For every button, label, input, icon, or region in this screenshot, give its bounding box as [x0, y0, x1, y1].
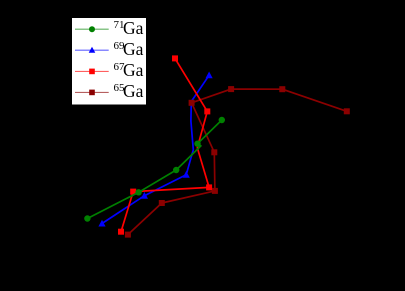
67Ga marker s5: [204, 108, 210, 114]
legend entry 65Ga marker: [89, 90, 95, 96]
67Ga marker s2: [130, 189, 136, 195]
71Ga marker c4: [194, 141, 200, 147]
71Ga marker c2: [135, 189, 141, 195]
legend entry 69Ga marker: [89, 47, 96, 53]
69Ga marker t6: [206, 72, 213, 79]
67Ga marker s1: [118, 229, 124, 235]
svg-text:Ga: Ga: [123, 18, 144, 38]
series 67Ga (red) line: [121, 58, 209, 231]
69Ga marker t1: [98, 220, 105, 227]
legend entry 67Ga marker: [89, 69, 95, 75]
65Ga marker d3: [212, 188, 218, 194]
71Ga marker c5: [219, 117, 225, 123]
65Ga marker d4: [211, 149, 217, 155]
legend entry 67Ga line: [75, 70, 109, 72]
67Ga marker s3: [206, 184, 212, 190]
legend box: [72, 18, 147, 106]
svg-text:Ga: Ga: [123, 81, 144, 101]
svg-text:Ga: Ga: [123, 60, 144, 80]
71Ga marker c3: [173, 167, 179, 173]
65Ga marker d8: [344, 108, 350, 114]
series 65Ga (dark red) line: [128, 89, 347, 235]
series 71Ga (green) line: [87, 120, 221, 219]
65Ga marker d5: [189, 100, 195, 106]
65Ga marker d7: [279, 86, 285, 92]
series 69Ga (blue) line: [102, 75, 209, 223]
legend entry 71Ga line: [75, 28, 109, 30]
legend entry 65Ga line: [75, 91, 109, 93]
67Ga marker s6: [172, 55, 178, 61]
legend entry 69Ga line: [75, 49, 109, 51]
69Ga marker t2: [141, 192, 148, 199]
65Ga marker d2: [159, 200, 165, 206]
69Ga marker t3: [183, 171, 190, 178]
65Ga marker d1: [125, 232, 131, 238]
71Ga marker c1: [84, 215, 90, 221]
svg-text:Ga: Ga: [123, 39, 144, 59]
legend entry 71Ga marker: [89, 26, 95, 32]
65Ga marker d6: [228, 86, 234, 92]
